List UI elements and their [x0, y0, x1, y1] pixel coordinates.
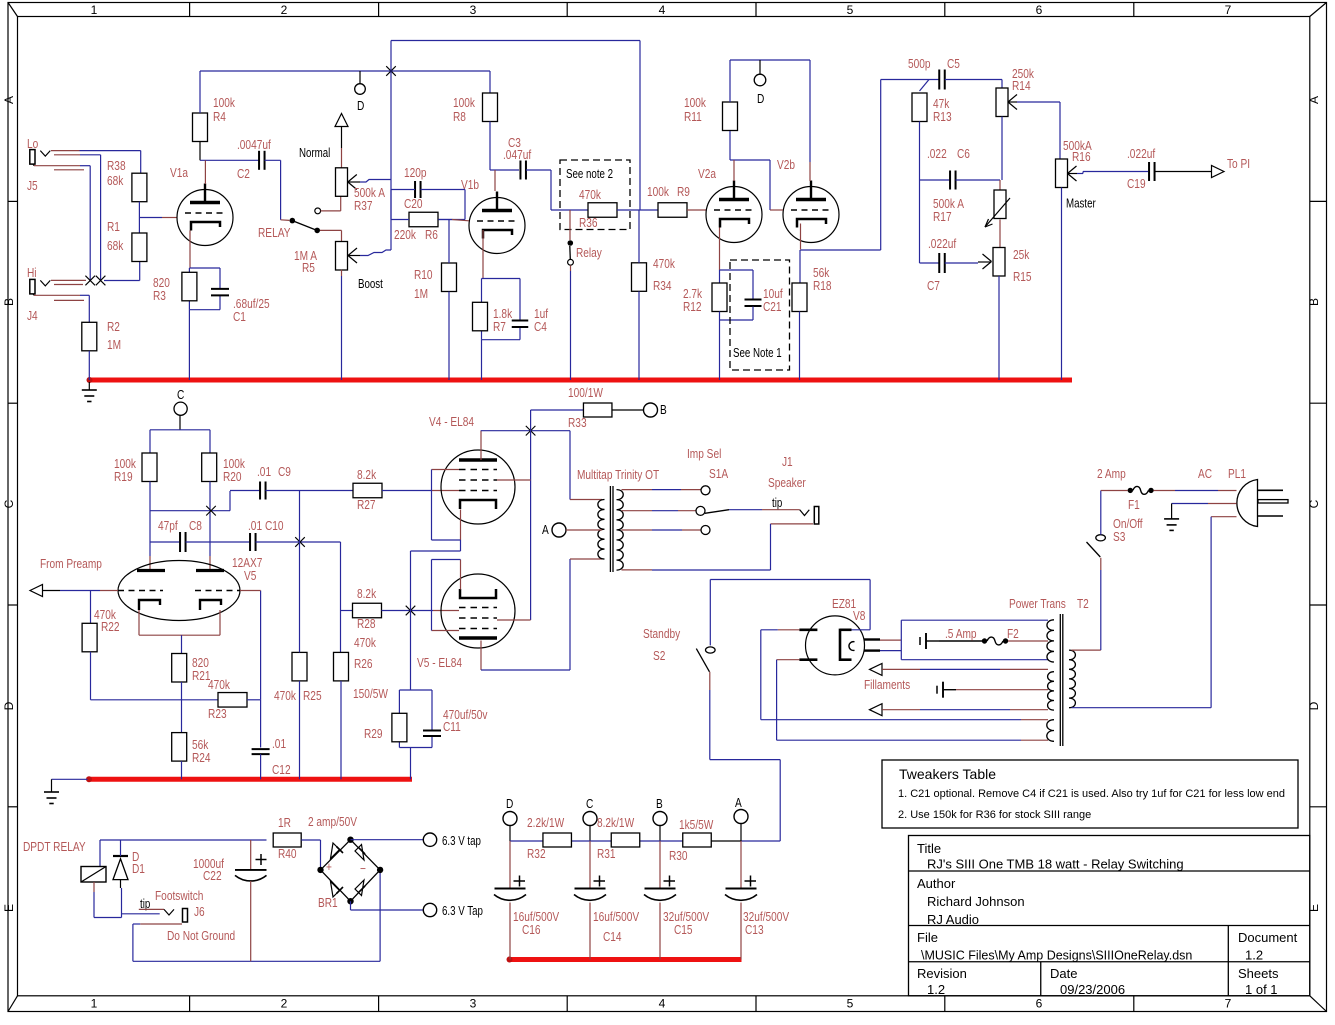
- wire R12 to ground bus: [719, 312, 721, 381]
- svg-text:E: E: [2, 904, 16, 912]
- svg-text:Author: Author: [917, 876, 956, 891]
- svg-text:Date: Date: [1050, 966, 1077, 981]
- resistor R1 68k: [107, 220, 147, 262]
- resistor R18 56k: [792, 266, 832, 312]
- svg-text:6: 6: [1036, 997, 1043, 1011]
- svg-text:R17: R17: [933, 210, 952, 224]
- svg-text:From Preamp: From Preamp: [40, 557, 102, 571]
- dashed box See Note 1: [730, 260, 790, 370]
- svg-text:C2: C2: [237, 167, 250, 181]
- wire relay coil bottom: [94, 882, 122, 918]
- resistor R4 100k: [193, 96, 236, 142]
- jack J4 Hi input: [27, 266, 86, 323]
- resistor R2 1M: [82, 320, 121, 352]
- resistor R9 100k: [647, 185, 690, 217]
- svg-text:1 of 1: 1 of 1: [1245, 982, 1278, 997]
- svg-text:B: B: [2, 298, 16, 306]
- svg-text:F1: F1: [1128, 498, 1140, 512]
- wire C7 row: [920, 180, 939, 263]
- resistor R29 150/5W: [353, 687, 407, 742]
- capacitor C12 .01: [252, 737, 291, 777]
- svg-text:V2a: V2a: [698, 167, 716, 181]
- svg-text:J1: J1: [782, 455, 793, 469]
- resistor R8 100k: [453, 93, 497, 124]
- svg-text:Lo: Lo: [27, 137, 38, 151]
- svg-text:See note 2: See note 2: [566, 168, 613, 181]
- resistor R10 1M: [414, 263, 456, 301]
- svg-text:.022uf: .022uf: [928, 237, 957, 251]
- svg-text:To PI: To PI: [1227, 157, 1250, 171]
- wire EZ81 cathode arm: [852, 629, 871, 631]
- svg-text:470k: 470k: [274, 689, 296, 703]
- arrow From Preamp input: [30, 557, 102, 597]
- svg-text:1k5/5W: 1k5/5W: [679, 818, 713, 832]
- wire V2a plate to V2b grid: [730, 131, 783, 210]
- svg-text:R32: R32: [527, 847, 546, 861]
- svg-text:D1: D1: [132, 862, 145, 876]
- svg-text:Relay: Relay: [576, 246, 602, 260]
- capacitor C21 10uf optional: [720, 270, 784, 320]
- wire C node rail to R19 R20: [150, 430, 210, 453]
- svg-text:R6: R6: [425, 228, 438, 242]
- svg-text:C7: C7: [927, 279, 940, 293]
- connector arrow above R37: [335, 114, 348, 168]
- wire boost contact to R5: [320, 230, 342, 241]
- svg-text:S2: S2: [653, 649, 665, 663]
- wire R21 to R24: [181, 682, 183, 733]
- resistor R31 8.2k/1W: [597, 816, 640, 861]
- wire R22 to tail node: [91, 652, 219, 700]
- capacitor C9 .01: [257, 465, 291, 500]
- svg-text:100k: 100k: [647, 185, 669, 199]
- fuse F2 .5 Amp: [920, 627, 1048, 649]
- potentiometer R15 25k bass: [993, 248, 1032, 285]
- potentiometer R16 500kA master: [1056, 139, 1096, 211]
- resistor R23 470k tail: [208, 678, 247, 721]
- potentiometer R14 250k treble: [996, 67, 1034, 117]
- wire R18 to ground bus: [799, 312, 801, 381]
- svg-text:Document: Document: [1238, 930, 1298, 945]
- wire R38-R1 junction to V1a grid: [139, 202, 177, 233]
- capacitor C15 32uf/500V: [644, 841, 709, 960]
- svg-text:B: B: [656, 797, 663, 811]
- resistor R13 47k: [912, 93, 952, 124]
- wire R28 to V5 grid: [382, 610, 460, 612]
- svg-text:R30: R30: [669, 849, 688, 863]
- capacitor C19 .022uf: [1127, 147, 1156, 191]
- wire C10 to R28 R26 node: [256, 542, 354, 652]
- resistor R33 100/1W: [568, 386, 612, 430]
- svg-text:T2: T2: [1077, 597, 1089, 611]
- impedance selector S1A: [622, 447, 730, 535]
- capacitor C13 32uf/500V: [725, 841, 789, 960]
- svg-text:R3: R3: [153, 289, 166, 303]
- wire D1 anode to footswitch tip: [121, 880, 160, 918]
- node A to PSU rail: [734, 796, 748, 841]
- svg-text:AC: AC: [1198, 467, 1212, 481]
- junction X crossing R25 riser: [295, 537, 305, 547]
- resistor R34 470k: [632, 257, 676, 293]
- svg-text:A: A: [1307, 96, 1321, 104]
- svg-text:D: D: [2, 701, 16, 710]
- svg-text:V1b: V1b: [461, 178, 479, 192]
- svg-text:16uf/500V: 16uf/500V: [593, 910, 639, 924]
- svg-text:R2: R2: [107, 320, 120, 334]
- svg-text:470k: 470k: [653, 257, 675, 271]
- switch S2 standby: [643, 627, 715, 672]
- wire R5 bottom to ground bus: [341, 270, 343, 380]
- svg-text:.01: .01: [272, 737, 286, 751]
- svg-text:C9: C9: [278, 465, 291, 479]
- capacitor C1 .68uf/25: [211, 289, 270, 324]
- wire C2 to relay common: [265, 160, 290, 220]
- tube V2a triode: [698, 167, 762, 243]
- wire V5 plate to OT primary bottom: [481, 559, 602, 670]
- svg-text:8.2k/1W: 8.2k/1W: [597, 816, 634, 830]
- tube V4 EL84: [429, 415, 515, 524]
- svg-text:C1: C1: [233, 310, 246, 324]
- wire R2 to ground bus: [88, 351, 90, 380]
- svg-text:.022uf: .022uf: [1127, 147, 1156, 161]
- wire V5 cathode and suppressor tie: [432, 560, 461, 631]
- svg-text:.01: .01: [248, 519, 262, 533]
- wire left plate to C9 row: [150, 491, 259, 511]
- wire R16 wiper to C19: [1068, 172, 1149, 174]
- svg-text:D: D: [1307, 701, 1321, 710]
- svg-text:Boost: Boost: [358, 278, 384, 291]
- svg-text:+: +: [326, 860, 332, 874]
- svg-text:S3: S3: [1113, 530, 1125, 544]
- svg-text:1.2: 1.2: [927, 982, 945, 997]
- wire V4 cathode and suppressor tie: [411, 470, 461, 691]
- svg-text:Standby: Standby: [643, 627, 680, 641]
- svg-text:R8: R8: [453, 110, 466, 124]
- svg-text:tip: tip: [772, 497, 782, 510]
- wire R9 to V2a grid: [687, 209, 706, 211]
- svg-text:68k: 68k: [107, 174, 123, 188]
- svg-text:V8: V8: [853, 609, 865, 623]
- svg-text:C: C: [1307, 499, 1321, 508]
- svg-text:.5 Amp: .5 Amp: [945, 627, 977, 641]
- wire OT primary center tap to A node: [542, 523, 602, 537]
- svg-text:1. C21 optional. Remove C4 if: 1. C21 optional. Remove C4 if C21 is use…: [898, 788, 1285, 800]
- wire C6 to R17 top: [956, 117, 1003, 191]
- resistor R22 470k: [82, 608, 119, 652]
- relay coil DPDT: [81, 867, 106, 883]
- resistor R12 2.7k: [683, 283, 727, 314]
- capacitor C6 .022: [927, 147, 970, 190]
- svg-text:R37: R37: [354, 199, 373, 213]
- resistor R27 8.2k: [353, 468, 382, 512]
- wire C5 to R14 top: [945, 80, 1002, 89]
- wire OT secondary bottom to jack sleeve: [622, 524, 771, 570]
- svg-text:R13: R13: [933, 110, 952, 124]
- svg-text:B: B: [1307, 298, 1321, 306]
- wire R4 bottom to C2 and V1a plate: [200, 142, 259, 185]
- switch S3 on/off: [1087, 517, 1144, 557]
- node C supply to PI: [174, 388, 187, 430]
- svg-text:Sheets: Sheets: [1238, 966, 1279, 981]
- svg-text:1: 1: [91, 3, 98, 17]
- junction X crossing R20 riser: [206, 506, 216, 516]
- node 6.3V tap upper: [351, 833, 481, 848]
- svg-text:R4: R4: [213, 110, 226, 124]
- svg-text:A: A: [542, 523, 549, 537]
- node D preamp supply right: [754, 60, 766, 106]
- wire V5 cathodes to R21: [139, 610, 220, 654]
- capacitor C7 .022uf: [927, 237, 957, 293]
- svg-text:C19: C19: [1127, 177, 1146, 191]
- svg-text:C16: C16: [522, 923, 541, 937]
- ground bus PI (red): [86, 776, 412, 782]
- svg-text:5: 5: [847, 3, 854, 17]
- junction X screen crossing: [526, 426, 536, 436]
- filament arrows: [864, 663, 1048, 715]
- svg-text:2. Use 150k for R36 for stock: 2. Use 150k for R36 for stock SIII range: [898, 809, 1091, 821]
- wire Hi sleeve to R2: [80, 295, 89, 322]
- wire R5 wiper to grid rail: [348, 180, 391, 256]
- ground symbol below bus left: [82, 382, 97, 402]
- svg-text:V2b: V2b: [777, 158, 795, 172]
- svg-text:3: 3: [470, 997, 477, 1011]
- dashed box See note 2: [560, 160, 630, 230]
- bridge rectifier BR1 2 amp/50V: [308, 815, 383, 910]
- wire R6 right to V1b grid: [438, 220, 469, 221]
- svg-text:6.3 V tap: 6.3 V tap: [442, 835, 481, 848]
- label Boost: [358, 278, 384, 291]
- svg-text:6: 6: [1036, 3, 1043, 17]
- svg-text:1R: 1R: [278, 816, 291, 830]
- jack J1 speaker: [729, 455, 819, 524]
- wire R24 to ground bus: [181, 761, 183, 779]
- junction X B+ rail crossing: [386, 66, 396, 76]
- svg-text:Tweakers Table: Tweakers Table: [899, 766, 996, 782]
- wire EZ81 heater to 5V winding: [880, 620, 1048, 660]
- svg-text:V5 - EL84: V5 - EL84: [417, 656, 462, 670]
- wire R26 to ground bus: [340, 681, 342, 779]
- wire C12 to ground bus: [260, 754, 262, 779]
- node C PSU: [583, 797, 597, 841]
- svg-text:D: D: [757, 92, 764, 106]
- svg-text:8.2k: 8.2k: [357, 468, 376, 482]
- resistor R3 820: [153, 272, 197, 303]
- svg-text:2 amp/50V: 2 amp/50V: [308, 815, 357, 829]
- svg-text:R19: R19: [114, 470, 133, 484]
- svg-text:C: C: [177, 388, 184, 402]
- junction X crossing cathode drop: [406, 606, 416, 616]
- svg-text:R40: R40: [278, 847, 297, 861]
- resistor R20 100k: [202, 453, 245, 484]
- wire PL1 earth to ground: [1164, 504, 1236, 531]
- svg-text:.047uf: .047uf: [503, 148, 532, 162]
- svg-text:C: C: [586, 797, 593, 811]
- svg-text:V1a: V1a: [170, 166, 188, 180]
- svg-text:Do Not Ground: Do Not Ground: [167, 929, 235, 943]
- resistor R38 68k: [107, 159, 147, 202]
- tube V2b triode cathode follower: [777, 158, 839, 243]
- svg-text:R33: R33: [568, 416, 587, 430]
- svg-text:R14: R14: [1012, 79, 1031, 93]
- svg-text:D: D: [357, 99, 364, 113]
- fuse F1 2 Amp: [1097, 467, 1237, 512]
- wire R33 row and B node: [531, 409, 584, 411]
- svg-text:.01: .01: [257, 465, 271, 479]
- svg-text:C8: C8: [189, 519, 202, 533]
- svg-text:C22: C22: [203, 869, 222, 883]
- wire J5 tip to R38: [80, 151, 141, 174]
- svg-text:C10: C10: [265, 519, 284, 533]
- tube V8 EZ81 rectifier: [799, 597, 880, 675]
- resistor R36 470k: [579, 188, 617, 230]
- svg-text:R18: R18: [813, 279, 832, 293]
- svg-text:100k: 100k: [453, 96, 475, 110]
- wire EZ81 plates to HV winding: [761, 630, 1048, 740]
- resistor R24 56k: [172, 733, 211, 766]
- relay switch 2: [568, 210, 603, 380]
- svg-text:Richard Johnson: Richard Johnson: [927, 894, 1025, 909]
- wire R8 to V1b plate and C3: [490, 122, 519, 192]
- potentiometer R17 500k A mid: [933, 190, 1010, 227]
- diode D1: [113, 840, 145, 880]
- svg-text:R12: R12: [683, 300, 702, 314]
- wire C20 bypass loop: [391, 190, 465, 220]
- cathode bias network R29 C11: [399, 690, 432, 779]
- capacitor C11 470uf/50v: [423, 708, 488, 736]
- svg-text:Fillaments: Fillaments: [864, 678, 910, 692]
- svg-text:3: 3: [470, 3, 477, 17]
- wire S2 to A node: [710, 672, 780, 841]
- svg-text:Master: Master: [1066, 197, 1096, 210]
- svg-text:B: B: [660, 403, 667, 417]
- svg-text:100/1W: 100/1W: [568, 386, 603, 400]
- svg-text:Power Trans: Power Trans: [1009, 597, 1066, 611]
- wire Hi tip to R1: [104, 261, 140, 280]
- wire R20 to V5b plate: [209, 482, 211, 571]
- svg-text:R15: R15: [1013, 270, 1032, 284]
- wire J5 sleeve down to Hi tip: [80, 166, 90, 281]
- capacitor C14 16uf/500V: [574, 841, 639, 960]
- wire J5 contact2 down to Hi jack: [80, 155, 101, 281]
- svg-text:−: −: [360, 862, 366, 876]
- svg-text:See Note 1: See Note 1: [733, 347, 782, 360]
- svg-text:.0047uf: .0047uf: [237, 138, 271, 152]
- capacitor C22 1000uf: [193, 840, 266, 961]
- capacitor C16 16uf/500V: [494, 841, 559, 960]
- wire S3 to fuse F1: [1100, 491, 1102, 535]
- svg-text:Hi: Hi: [27, 266, 37, 280]
- wire R36 to R9: [617, 209, 658, 211]
- svg-text:PL1: PL1: [1228, 467, 1246, 481]
- resistor R7 1.8k: [473, 302, 513, 334]
- svg-text:R23: R23: [208, 707, 227, 721]
- resistor R6 220k: [394, 212, 438, 242]
- wire grid rail top to V2a grid node: [391, 41, 640, 211]
- wire R19 to V5a plate: [149, 482, 151, 571]
- tube V1b triode: [461, 178, 525, 254]
- svg-text:Footswitch: Footswitch: [155, 889, 203, 903]
- svg-text:R27: R27: [357, 498, 376, 512]
- capacitor C20 120p: [404, 166, 427, 211]
- svg-text:2.2k/1W: 2.2k/1W: [527, 816, 564, 830]
- resistor R11 100k: [684, 96, 738, 131]
- wire input to V5a grid and R22: [60, 591, 118, 624]
- svg-text:J6: J6: [194, 905, 205, 919]
- wire R10 leads: [448, 220, 450, 381]
- svg-text:A: A: [735, 796, 742, 810]
- transformer OT Multitap Trinity: [577, 468, 659, 572]
- svg-text:68k: 68k: [107, 239, 123, 253]
- wire B+ rail top right: [730, 60, 810, 181]
- svg-text:C13: C13: [745, 923, 764, 937]
- capacitor C10 .01: [248, 519, 284, 551]
- jack J5 Lo input: [27, 137, 84, 193]
- svg-text:1M: 1M: [107, 338, 121, 352]
- svg-text:100k: 100k: [684, 96, 706, 110]
- svg-text:F2: F2: [1007, 627, 1019, 641]
- svg-text:220k: 220k: [394, 228, 416, 242]
- wire C8 to C10: [186, 541, 250, 543]
- wire R27 to V4 grid: [382, 490, 459, 492]
- svg-text:V5: V5: [244, 569, 256, 583]
- wire C7 to R15 wiper arrow: [945, 254, 992, 269]
- svg-text:File: File: [917, 930, 938, 945]
- svg-text:120p: 120p: [404, 166, 427, 180]
- svg-text:C11: C11: [443, 720, 461, 734]
- svg-text:J4: J4: [27, 309, 38, 323]
- tube V1a triode: [170, 166, 233, 246]
- svg-text:470k: 470k: [579, 188, 601, 202]
- wire relay supply top rail: [23, 840, 266, 867]
- wire J6 sleeve to bridge: [133, 870, 380, 961]
- svg-text:R11: R11: [684, 110, 702, 124]
- wire R6 left to grid rail: [391, 190, 409, 220]
- wire tone stack top feed: [881, 80, 939, 92]
- plug PL1 AC mains: [1198, 467, 1288, 527]
- svg-text:500p: 500p: [908, 57, 931, 71]
- svg-text:R24: R24: [192, 751, 211, 765]
- svg-text:470k: 470k: [208, 678, 230, 692]
- svg-text:4: 4: [659, 3, 666, 17]
- svg-text:A: A: [2, 96, 16, 104]
- svg-text:E: E: [1307, 904, 1321, 912]
- wire PSU rail: [510, 840, 741, 842]
- capacitor C4 1uf: [512, 307, 549, 334]
- node D PSU: [503, 797, 517, 841]
- wire R15 to ground bus: [998, 276, 1000, 380]
- capacitor C2 .0047uf: [237, 138, 271, 181]
- svg-text:2: 2: [281, 3, 288, 17]
- wire R23 to V5b grid and C12: [240, 591, 261, 748]
- svg-text:R29: R29: [364, 727, 383, 741]
- svg-text:Multitap Trinity OT: Multitap Trinity OT: [577, 468, 659, 482]
- svg-text:Revision: Revision: [917, 966, 967, 981]
- wire V2a cathode to R12: [719, 228, 721, 284]
- resistor R26 470k grid leak: [334, 636, 377, 681]
- svg-text:BR1: BR1: [318, 896, 338, 910]
- svg-text:RJ Audio: RJ Audio: [927, 912, 979, 927]
- svg-text:100k: 100k: [213, 96, 235, 110]
- relay switch contacts near C2: [258, 208, 321, 240]
- wire V4 plate row to OT: [481, 431, 602, 500]
- svg-text:8.2k: 8.2k: [357, 587, 376, 601]
- wire R17 to R15: [999, 220, 1001, 248]
- tube V5 12AX7 phase inverter: [118, 556, 262, 621]
- svg-text:R5: R5: [302, 261, 315, 275]
- svg-text:RJ's SIII One TMB 18 watt - Re: RJ's SIII One TMB 18 watt - Relay Switch…: [927, 857, 1184, 872]
- svg-text:D: D: [506, 797, 513, 811]
- wire R16 bottom to ground bus: [1061, 188, 1063, 381]
- wire C9 to R27 and R25: [266, 490, 354, 492]
